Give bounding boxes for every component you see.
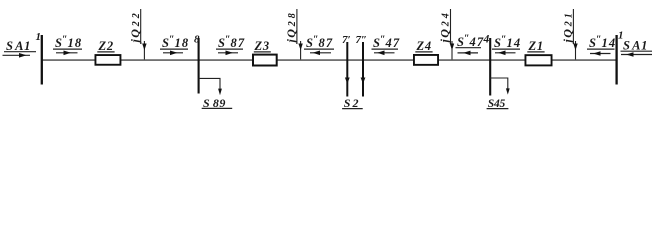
impedance Z1 [525,39,551,65]
flow arrow S''14 (receiving end, points left) [492,35,521,56]
node 7'' load arrow (to S 2) [356,34,368,97]
flow arrow S''14 (sending end, points left) [587,35,616,56]
svg-text:7″: 7″ [356,34,368,46]
svg-text:S″14: S″14 [589,35,616,51]
impedance Z3 [253,39,277,66]
svg-text:1: 1 [36,31,42,43]
node 7' load arrow (to S 2) [342,34,351,97]
svg-text:S″47: S″47 [457,34,484,50]
charging power arrow jQ28 [284,9,303,59]
svg-text:S″87: S″87 [218,35,245,51]
svg-text:S″18: S″18 [55,35,82,51]
wire node 8 to load S 89 [199,78,222,95]
svg-text:Z4: Z4 [416,39,433,53]
svg-text:S″87: S″87 [306,35,333,51]
svg-text:jQ24: jQ24 [438,10,452,44]
svg-text:jQ28: jQ28 [284,10,298,44]
svg-text:S″14: S″14 [494,35,521,51]
load label S 89 [202,96,233,110]
flow arrow S''18 (sending end, points right) [53,35,82,56]
impedance Z2 [95,39,120,65]
svg-text:jQ21: jQ21 [561,10,575,44]
flow arrow S''47 (receiving end, points left) [372,35,401,56]
svg-text:S″47: S″47 [373,35,400,51]
node 8 busbar [194,34,200,94]
flow arrow S''87 (sending end, points right) [216,35,245,56]
node 4 busbar [483,34,491,96]
svg-text:Z2: Z2 [98,39,115,53]
source flow S A1 (left), points right [3,39,37,58]
flow arrow S''47 (sending end, points left) [456,34,485,56]
svg-text:Z3: Z3 [254,39,271,53]
svg-text:S89: S89 [203,96,226,110]
impedance Z4 [414,39,438,65]
svg-text:SA1: SA1 [6,39,31,53]
load label S 2 [342,96,363,110]
svg-text:Z1: Z1 [528,39,545,53]
svg-text:7′: 7′ [342,34,351,46]
charging power arrow jQ22 [128,9,147,59]
charging power arrow jQ21 [561,9,578,59]
wire node 4 to load S45 [490,78,510,95]
svg-text:jQ22: jQ22 [128,10,142,44]
node 1 (left busbar) [36,31,42,85]
charging power arrow jQ24 [438,9,455,59]
wire main bus line [42,59,617,61]
source flow S A1 (right), points left [621,39,653,57]
svg-text:8: 8 [194,34,200,46]
node 1 (right busbar) [617,30,624,85]
svg-text:SA1: SA1 [623,39,648,53]
flow arrow S''87 (receiving end, points left) [304,35,334,56]
svg-text:S2: S2 [344,96,359,110]
svg-text:S″18: S″18 [162,35,189,51]
load label S45 [487,98,509,110]
flow arrow S''18 (receiving end, points right) [160,35,189,56]
svg-text:4: 4 [483,34,490,46]
